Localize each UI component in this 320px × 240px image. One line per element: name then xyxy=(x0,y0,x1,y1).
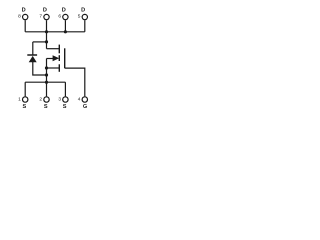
svg-text:D: D xyxy=(62,7,66,13)
wire pin6 stem xyxy=(64,20,66,32)
svg-text:5: 5 xyxy=(78,13,81,19)
wire pin3 stem xyxy=(64,82,66,96)
pin 4 terminal circle xyxy=(82,97,87,102)
svg-text:6: 6 xyxy=(58,13,61,19)
mosfet Q1 channel bottom dash xyxy=(58,64,60,72)
wire bottom source bus xyxy=(25,81,65,83)
svg-text:S: S xyxy=(23,104,27,110)
wire gate lead to pin4 xyxy=(65,68,85,96)
diode D1 anode triangle xyxy=(29,56,37,62)
svg-text:3: 3 xyxy=(58,97,61,103)
svg-text:7: 7 xyxy=(39,13,42,19)
pin 1 terminal circle xyxy=(23,97,28,102)
svg-text:1: 1 xyxy=(18,97,21,103)
junction dot diode bottom branch xyxy=(45,73,48,76)
svg-text:D: D xyxy=(22,7,26,13)
mosfet Q1 gate bar xyxy=(64,48,66,68)
svg-text:D: D xyxy=(43,7,47,13)
wire pin8 stem xyxy=(24,20,26,32)
wire diode branch horizontal xyxy=(33,41,47,43)
wire diode upper lead xyxy=(32,42,34,55)
mosfet Q1 channel top dash xyxy=(58,45,60,54)
svg-text:2: 2 xyxy=(39,97,42,103)
svg-text:D: D xyxy=(81,7,85,13)
pin 6 terminal circle xyxy=(63,14,68,19)
svg-text:4: 4 xyxy=(78,97,81,103)
wire drain to channel xyxy=(47,48,60,50)
junction dot source line xyxy=(45,66,48,69)
wire pin5 stem xyxy=(84,20,86,32)
junction dot drain node / diode branch xyxy=(45,40,48,43)
pin 7 terminal circle xyxy=(44,14,49,19)
wire body arrow line xyxy=(47,58,54,60)
wire pin1 stem xyxy=(24,82,26,96)
svg-text:S: S xyxy=(44,104,48,110)
pin 3 terminal circle xyxy=(63,97,68,102)
svg-text:G: G xyxy=(83,104,87,110)
wire source line xyxy=(47,67,60,69)
diode D1 cathode bar xyxy=(27,54,37,56)
svg-text:S: S xyxy=(63,104,67,110)
junction dot bottom bus / pin2 xyxy=(45,81,48,84)
wire top drain bus xyxy=(25,31,85,33)
wire body/source vertical to pin2 xyxy=(46,59,48,97)
pin 5 terminal circle xyxy=(82,14,87,19)
mosfet Q1 body arrowhead xyxy=(53,55,60,61)
wire pin7 stem and drop to drain xyxy=(46,20,48,49)
wire diode lower lead and jog xyxy=(33,62,47,75)
mosfet Q1 channel middle dash xyxy=(58,55,60,61)
svg-text:8: 8 xyxy=(18,13,21,19)
junction dot top bus / pin7 drop xyxy=(45,30,48,33)
pin 8 terminal circle xyxy=(23,14,28,19)
pin 2 terminal circle xyxy=(44,97,49,102)
junction dot top bus / pin6 xyxy=(64,30,67,33)
